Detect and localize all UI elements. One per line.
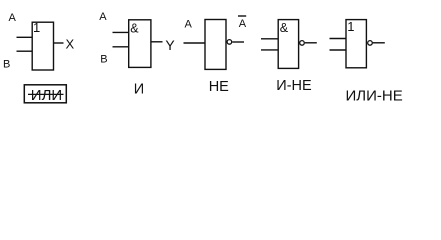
svg-text:1: 1 bbox=[33, 20, 40, 35]
svg-text:А: А bbox=[99, 11, 107, 23]
svg-text:ИЛИ-НЕ: ИЛИ-НЕ bbox=[346, 88, 403, 105]
NAND gate U4 (И-НЕ) body bbox=[278, 20, 298, 69]
svg-text:А: А bbox=[239, 18, 247, 30]
wire U1 output bbox=[54, 42, 64, 44]
wire U2 input A bbox=[113, 31, 129, 33]
inversion bubble U5 bbox=[368, 41, 373, 46]
svg-text:В: В bbox=[100, 54, 107, 66]
svg-text:И: И bbox=[134, 82, 144, 98]
NOT gate U3 (НЕ) body bbox=[205, 20, 226, 70]
wire U1 input A bbox=[17, 36, 33, 38]
svg-text:&: & bbox=[130, 22, 139, 36]
wire U4 output bbox=[305, 42, 317, 44]
svg-text:А: А bbox=[185, 19, 193, 31]
wire U5 input B bbox=[330, 49, 347, 51]
wire U2 output bbox=[151, 41, 163, 43]
svg-text:А: А bbox=[9, 12, 17, 24]
wire U4 input B bbox=[261, 49, 278, 51]
inversion bubble U4 bbox=[300, 41, 305, 46]
svg-text:&: & bbox=[280, 21, 289, 35]
svg-text:X: X bbox=[66, 37, 75, 52]
inversion bubble U3 bbox=[227, 40, 232, 45]
wire U1 input B bbox=[17, 50, 33, 52]
node label A-bar (U3 output) bbox=[238, 16, 247, 30]
wire U3 output bbox=[232, 41, 244, 43]
svg-text:Y: Y bbox=[165, 37, 175, 53]
caption box ИЛИ (struck through) bbox=[24, 85, 66, 104]
svg-text:В: В bbox=[3, 59, 10, 71]
wire U3 input bbox=[184, 42, 206, 44]
NOR gate U5 (ИЛИ-НЕ) body bbox=[346, 19, 366, 68]
svg-text:ИЛИ: ИЛИ bbox=[31, 87, 62, 104]
OR gate U1 (ИЛИ) body bbox=[32, 20, 53, 70]
AND gate U2 (И) body bbox=[129, 20, 151, 68]
svg-text:И-НЕ: И-НЕ bbox=[276, 78, 312, 94]
wire U5 input A bbox=[330, 38, 347, 40]
wire U5 output bbox=[373, 42, 385, 44]
svg-text:1: 1 bbox=[347, 19, 354, 34]
svg-text:НЕ: НЕ bbox=[209, 79, 229, 95]
wire U4 input A bbox=[261, 38, 278, 40]
wire U2 input B bbox=[113, 46, 129, 48]
